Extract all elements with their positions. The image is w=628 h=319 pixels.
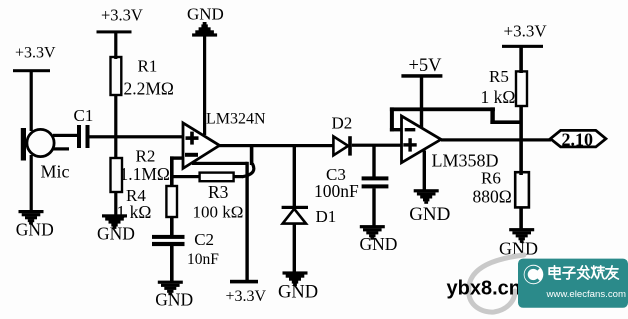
svg-text:GND: GND <box>278 283 318 303</box>
svg-text:+3.3V: +3.3V <box>226 288 267 305</box>
svg-text:100nF: 100nF <box>314 181 359 201</box>
svg-text:GND: GND <box>187 5 224 24</box>
svg-text:100 kΩ: 100 kΩ <box>193 203 244 222</box>
svg-text:Mic: Mic <box>41 162 70 182</box>
svg-text:+5V: +5V <box>409 56 443 76</box>
svg-text:1.1MΩ: 1.1MΩ <box>120 164 170 184</box>
svg-text:1 kΩ: 1 kΩ <box>117 202 152 222</box>
svg-text:R6: R6 <box>481 169 501 188</box>
svg-text:C2: C2 <box>194 230 214 249</box>
svg-text:GND: GND <box>155 290 193 310</box>
svg-text:10nF: 10nF <box>187 251 219 268</box>
svg-text:1 kΩ: 1 kΩ <box>481 87 516 107</box>
svg-text:GND: GND <box>409 204 450 225</box>
svg-text:C1: C1 <box>74 106 94 125</box>
svg-text:R2: R2 <box>136 147 156 166</box>
svg-text:www.elecfans.com: www.elecfans.com <box>546 289 626 300</box>
svg-text:ybx8.cn: ybx8.cn <box>447 278 521 300</box>
svg-text:LM358D: LM358D <box>432 151 499 171</box>
svg-text:LM324N: LM324N <box>206 111 266 128</box>
svg-text:R5: R5 <box>489 67 509 86</box>
svg-text:2.2MΩ: 2.2MΩ <box>124 79 174 99</box>
svg-text:880Ω: 880Ω <box>473 187 512 207</box>
svg-text:+3.3V: +3.3V <box>15 45 56 62</box>
svg-text:D2: D2 <box>332 114 353 133</box>
svg-text:R3: R3 <box>208 182 229 202</box>
svg-text:+3.3V: +3.3V <box>101 6 143 25</box>
svg-text:GND: GND <box>97 224 135 244</box>
svg-text:2.10: 2.10 <box>562 130 594 150</box>
svg-text:GND: GND <box>16 219 54 239</box>
svg-text:R1: R1 <box>138 57 158 76</box>
svg-text:GND: GND <box>360 234 398 254</box>
svg-text:D1: D1 <box>316 207 337 226</box>
svg-text:+3.3V: +3.3V <box>504 22 548 41</box>
